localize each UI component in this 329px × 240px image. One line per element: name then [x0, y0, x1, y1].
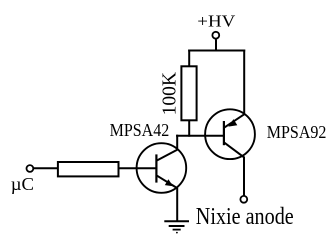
- node uC input terminal: [27, 165, 34, 172]
- ground symbol dot: [176, 232, 178, 234]
- svg-text:100K: 100K: [160, 72, 181, 115]
- ground symbol bar 1: [164, 220, 189, 222]
- resistor R2 base series: [58, 162, 119, 176]
- svg-text:Nixie anode: Nixie anode: [196, 202, 294, 229]
- wire Q1 collector drop: [176, 135, 178, 151]
- node Nixie anode terminal: [240, 196, 247, 203]
- wire Q1 base lead: [118, 167, 157, 169]
- transistor Q1 collector lead diagonal: [156, 150, 177, 161]
- node +HV terminal: [212, 32, 219, 39]
- svg-text:+HV: +HV: [197, 11, 235, 30]
- wire top rail right drop to Q2 emitter: [243, 50, 245, 115]
- transistor Q2 MPSA92 body circle: [205, 109, 255, 159]
- ground symbol bar 3: [173, 229, 181, 231]
- transistor Q2 base bar: [223, 121, 225, 145]
- transistor Q2 collector lead diagonal: [224, 142, 244, 157]
- resistor R1 100K: [181, 66, 196, 120]
- transistor Q1 MPSA42 body circle: [137, 143, 187, 193]
- wire top rail: [188, 50, 245, 52]
- ground symbol bar 2: [169, 225, 185, 227]
- wire uC terminal to R2: [33, 167, 59, 169]
- svg-text:MPSA92: MPSA92: [267, 122, 327, 142]
- svg-text:MPSA42: MPSA42: [110, 120, 170, 140]
- svg-text:µC: µC: [11, 175, 34, 194]
- wire mid rail Q1 collector to Q2 base: [176, 135, 224, 137]
- wire R1 bottom stub: [188, 120, 190, 137]
- transistor Q2 emitter arrow PNP: [228, 119, 237, 127]
- wire Q1 emitter drop to ground: [176, 188, 178, 222]
- wire +HV terminal stub: [215, 39, 217, 51]
- transistor Q1 emitter arrow NPN: [165, 179, 173, 186]
- transistor Q1 emitter lead diagonal: [156, 175, 177, 188]
- wire Q2 collector drop to nixie terminal: [243, 157, 245, 197]
- transistor Q1 base bar: [155, 154, 157, 182]
- wire top rail left drop to R1: [188, 50, 190, 68]
- transistor Q2 emitter lead diagonal: [224, 114, 244, 128]
